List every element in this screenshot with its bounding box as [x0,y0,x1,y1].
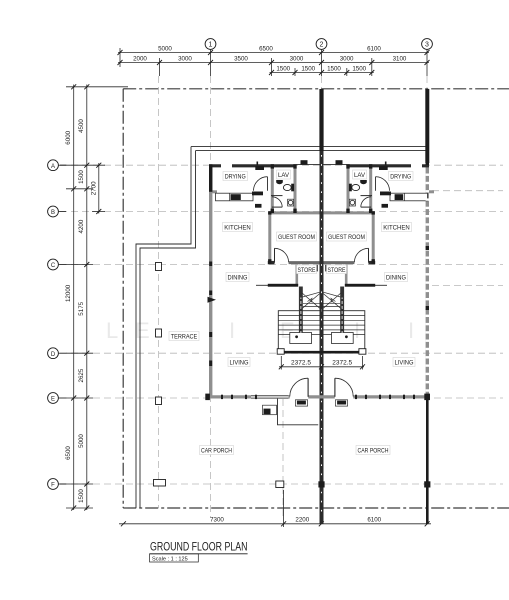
svg-text:DRYING: DRYING [390,174,411,181]
corridor fixture 2 [255,204,262,208]
svg-text:4500: 4500 [78,119,85,133]
svg-text:4200: 4200 [78,219,85,233]
grid row D [60,352,503,354]
terrace column 4 [154,480,166,487]
grid circle D [48,348,66,359]
BOUNDARY-LAYER [123,89,509,508]
top wall right unit [347,164,430,167]
right top black bar [425,89,429,163]
threshold right [335,400,347,406]
up step box [263,405,277,415]
room label CAR PORCH R [356,446,390,455]
kitchen stove black [231,194,241,200]
svg-text:3100: 3100 [393,56,407,63]
stair treads left [278,316,319,335]
svg-text:1500: 1500 [78,170,85,184]
lav corner caps R [346,164,372,213]
svg-text:CAR PORCH: CAR PORCH [201,448,232,455]
store left wall [295,265,298,285]
room label KITCHEN L [223,223,253,232]
room label CAR PORCH L [200,446,234,455]
guest room door arc [275,248,289,262]
left wall window marks [208,165,217,366]
svg-text:KITCHEN: KITCHEN [383,225,410,232]
kitchen sink divider R [404,193,406,201]
extension verticals top [119,48,121,67]
svg-text:E: E [51,397,55,403]
threshold left [295,400,307,406]
ticks row2 [118,60,123,65]
terrace column 1 [156,263,162,271]
lav wall basin [276,180,283,184]
svg-text:E: E [135,318,150,343]
terrace column 3 [156,397,162,405]
svg-text:6500: 6500 [65,446,72,460]
guest room top wall [268,211,319,214]
svg-text:12000: 12000 [65,284,72,302]
ticks outer chain [71,84,76,89]
svg-text:2625: 2625 [78,368,85,382]
guest room left wall [268,212,271,265]
svg-text:2: 2 [320,42,324,49]
store door jambs R [325,265,344,272]
top wall beam right [324,163,347,165]
grid porch divider column line [282,399,284,520]
porch node party [318,481,324,487]
porch node col3 [424,481,430,487]
grid row F [60,483,503,485]
lav right wall [294,164,297,212]
lav drain R [349,199,355,206]
grid col 1 [210,76,212,518]
store bottom bar [268,284,298,287]
stair arrows left [301,292,322,310]
ticks inner chain [84,84,89,89]
room label DRYING R [389,172,414,181]
connector row B [92,211,105,213]
lav drain [288,199,294,206]
grid extra row drying-bottom right [432,190,503,192]
svg-text:2372.5: 2372.5 [332,359,352,366]
scale box [150,554,199,562]
party wall [320,89,324,524]
guest room bottom wall bR [324,261,355,264]
connector row F [60,483,93,485]
svg-text:2200: 2200 [295,517,309,524]
stair corner column right [359,349,366,355]
kitchen sink divider [229,193,231,201]
boundary left [122,89,124,508]
room label DRYING L [223,172,248,181]
dim line top row2 [118,62,429,64]
guest room door arc R [354,248,368,262]
lav door arc R [361,197,371,207]
svg-text:1: 1 [209,42,213,49]
window gap top wall right [411,164,422,168]
eave outline inner [196,150,428,152]
svg-text:5175: 5175 [78,301,85,315]
svg-text:2700: 2700 [91,181,98,195]
LABELS-LAYER [169,170,415,455]
top wall left unit [209,164,297,167]
grid row A [60,164,503,166]
grid col 2 [321,76,323,518]
svg-text:LIVING: LIVING [395,360,414,367]
stair rail left [299,287,303,333]
store bottom thin line R [375,284,387,286]
stair arrows right [322,292,343,310]
lav door arc [272,197,282,207]
right wall window marks [426,174,429,392]
grid row C [60,264,503,266]
svg-text:F: F [51,483,55,489]
connector row C [66,264,93,266]
guest room top wall R [324,211,375,214]
kitchen counter outline [216,193,254,201]
svg-text:6500: 6500 [259,46,273,53]
drying sink unit [255,162,264,171]
room label STORE R [327,265,347,274]
dim line left outer chain [73,85,75,511]
room label DINING L [226,273,249,282]
svg-text:KITCHEN: KITCHEN [224,225,251,232]
grid circle 2 [316,39,327,50]
GRID-LAYER [60,76,503,520]
lav corner caps L [271,164,297,213]
stair treads right [324,316,365,335]
stair bottom heavy edge [278,351,365,354]
fixture above lav [301,160,308,165]
svg-text:LAV: LAV [354,172,366,179]
svg-text:1500: 1500 [301,66,315,73]
front wall door opening left [290,395,308,399]
room label KITCHEN R [382,223,412,232]
ticks row3 [269,70,274,75]
ticks row1 [118,50,123,55]
svg-text:1500: 1500 [276,66,290,73]
svg-text:DRYING: DRYING [225,174,246,181]
stair top treads left [303,303,320,306]
stair rail right [340,287,344,333]
store door jambs L [299,265,318,272]
svg-text:LIVING: LIVING [230,360,249,367]
svg-text:A: A [51,164,55,170]
grid extra row store right [432,285,503,287]
drying sink unit R [379,162,388,171]
grid circle E [48,393,66,404]
grid circle 1 [205,39,216,50]
grid row B [60,211,503,213]
room label TERRACE [169,332,199,341]
stair top treads right [324,303,341,306]
room label LIVING R [393,358,415,367]
room label GUEST ROOM R [327,232,367,241]
svg-text:5000: 5000 [78,434,85,448]
svg-text:I: I [229,318,235,343]
grid circle A [48,160,66,171]
svg-text:3000: 3000 [178,56,192,63]
DIMS-BOTTOM [119,490,431,527]
room label GUEST ROOM L [277,232,317,241]
svg-text:LAV: LAV [278,172,290,179]
svg-text:2372.5: 2372.5 [291,359,311,366]
front wall window ticks [221,395,415,399]
svg-text:2000: 2000 [133,56,147,63]
connector top [66,86,128,88]
store bottom thin line [256,284,268,286]
guest wall corner caps [268,211,375,264]
svg-text:STORE: STORE [298,267,316,274]
room label DINING R [385,273,408,282]
svg-text:DINING: DINING [386,275,406,282]
stair up dot left [295,298,301,339]
porch column mid [276,481,284,488]
corridor fixture 1 [252,192,263,196]
svg-text:3000: 3000 [290,56,304,63]
dim line top row1 [118,52,429,54]
watermark [106,318,414,343]
lav wall basin R [360,180,367,184]
front wall door opening right [335,395,353,399]
front door arc left [290,378,308,397]
party wall top black bar [319,89,323,151]
guest room bottom wall a [268,261,275,264]
guest room right wall R [372,212,375,265]
grid terrace column line [158,76,160,508]
window gap top wall left [221,164,232,168]
title underline [150,553,248,555]
svg-text:1500: 1500 [327,66,341,73]
svg-text:3000: 3000 [340,56,354,63]
svg-text:L: L [106,318,118,343]
svg-text:I: I [354,318,360,343]
drying door arc R [376,177,390,191]
svg-text:D: D [51,352,56,358]
svg-text:6000: 6000 [65,130,72,144]
stair outer box [278,311,365,352]
connector row E [66,397,93,399]
lav partition R [361,195,373,197]
connector 188.8 [66,188,93,190]
store right wall R [345,265,348,285]
svg-text:3500: 3500 [234,56,248,63]
svg-text:STORE: STORE [328,267,346,274]
room label LAV R [353,170,367,179]
svg-text:C: C [51,263,56,269]
guest room bottom wall b [289,261,320,264]
lav partition [271,195,283,197]
svg-text:B: B [51,210,55,216]
dim 2372.5 [279,356,365,370]
svg-text:6100: 6100 [367,517,381,524]
lav left wall [271,164,274,211]
stair corner column left [277,349,284,355]
drying-kitchen wall stub [209,190,217,193]
svg-text:Scale : 1 : 125: Scale : 1 : 125 [152,556,188,562]
svg-text:DINING: DINING [228,275,248,282]
TITLE-LAYER [150,542,248,563]
svg-text:3: 3 [425,42,429,49]
extension porch divider [283,490,285,527]
porch heavy line right [426,399,429,524]
svg-text:5000: 5000 [158,46,172,53]
room label LAV L [277,170,291,179]
lav right wall R [369,164,372,211]
svg-text:GROUND FLOOR PLAN: GROUND FLOOR PLAN [150,542,248,554]
HOUSE-LAYER [136,89,434,524]
connector row A [60,164,105,166]
connector bottom [66,507,93,509]
fixture above lav R [336,160,343,165]
wall black corner left [205,394,210,401]
grid row E [60,397,503,399]
party wall hatch texture [321,155,323,518]
dim line top row3 [270,72,374,74]
eave outline outer [191,146,428,148]
svg-text:1500: 1500 [78,489,85,503]
svg-text:CAR PORCH: CAR PORCH [358,448,389,455]
right outer wall [426,161,429,399]
svg-text:I: I [408,318,414,343]
terrace column 2 [156,329,162,337]
lav toilet [283,184,294,192]
corridor fixture 1R [380,192,391,196]
grid circle C [48,259,66,270]
stair up dot right [342,298,348,339]
kitchen counter outline R [390,193,428,201]
DIMS-LEFT [48,84,128,510]
top wall beam left [297,163,320,165]
room label LIVING L [228,358,250,367]
kitchen stove black R [395,194,404,200]
svg-text:7300: 7300 [210,517,224,524]
ticks 2700 chain [96,163,101,168]
corridor fixture 2R [382,204,389,208]
entry step slab [278,398,319,424]
boundary top [123,88,509,90]
left outer wall [209,164,212,399]
svg-text:GUEST ROOM: GUEST ROOM [278,234,315,241]
grid circle B [48,206,66,217]
store bottom bar R [345,284,375,287]
grid circle F [48,479,66,490]
front wall window section left [251,395,289,398]
wall black corner right [424,394,430,401]
connector row D [66,352,93,354]
front door arc right [335,378,353,397]
grid col 3 [426,76,428,518]
svg-text:TERRACE: TERRACE [171,334,198,341]
ticks bottom [121,521,126,526]
room label STORE L [297,265,317,274]
front wall [209,395,429,398]
DIMS-TOP [118,39,433,76]
stair landing box left [290,333,312,344]
drying door arc [254,177,268,191]
lav left wall R [347,164,350,212]
dim line left inner chain [86,85,88,511]
svg-text:1500: 1500 [352,66,366,73]
dim line 2700 chain [98,163,100,214]
drying-kitchen wall stub R [426,190,434,193]
svg-text:6100: 6100 [367,46,381,53]
boundary bottom [123,507,509,509]
svg-text:GUEST ROOM: GUEST ROOM [328,234,365,241]
guest room bottom wall aR [369,261,376,264]
dim line bottom [119,523,431,525]
stair landing box right [332,333,354,344]
grid circle 3 [422,39,433,50]
lav toilet R [349,184,360,192]
